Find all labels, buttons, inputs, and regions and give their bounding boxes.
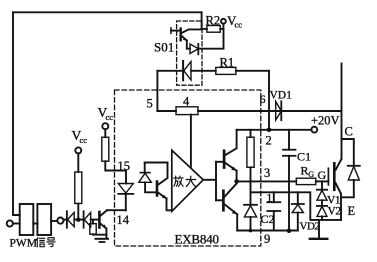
capacitor C1 plate bottom [283,155,296,157]
wire Vcc circle lead [77,153,79,172]
diode VD2 triangle [292,205,303,213]
resistor pin4 [176,107,198,115]
diode VD2 top lead [297,192,299,204]
diode opto-out triangle [190,44,198,54]
svg-text:VD2: VD2 [300,221,320,233]
resistor RG [296,178,316,184]
PWM block 1 [20,204,34,235]
wire RG to gate [316,180,329,182]
capacitor C2 top lead [273,192,275,202]
wire diode freewheel bottom [341,180,354,197]
terminal +20V circle [311,127,317,133]
wire amp output [203,179,216,181]
wire pin6 line left [157,110,176,112]
ground right bar [310,238,328,240]
transistor T2 base bar [156,182,159,196]
output terminal circle [57,218,63,224]
svg-text:C2: C2 [261,212,275,226]
wire Vcc R2 lead [222,24,224,29]
wire feedback top [13,11,202,13]
diode internal free-wheel triangle [244,206,256,217]
wire pin6 line right [198,110,342,112]
wire Vcc resistor lead lower [77,204,79,220]
transistor Q1 emitter [101,224,107,229]
phototransistor base tick [170,28,172,33]
wire pin2 +20V line [237,129,312,131]
transistor Q1 collector [101,210,107,215]
junction dot C1 rail [287,228,292,233]
phototransistor emitter arrowhead [183,37,187,40]
svg-text:6: 6 [260,94,266,106]
wire R1 vertical down [268,71,270,130]
transistor T4 emitter [225,205,238,215]
wire LED to R1 [191,70,216,72]
phototransistor collector [182,29,202,32]
capacitor C2 plate top [267,201,280,203]
label 大 glyph [186,176,196,186]
wire IGBT collector [341,64,343,159]
capacitor C1 plate top [283,149,296,151]
wire Vcc upper lead [104,129,106,137]
wire pin1 line [251,192,342,220]
wire Db to Q1 base [91,219,99,221]
zener V2 cathode bar [317,205,327,207]
transistor IGBT collector diag [336,159,342,170]
svg-text:V2: V2 [328,206,342,218]
svg-text:PWM: PWM [10,238,37,250]
diode opto-out cathode bar [197,44,199,54]
svg-text:VD1: VD1 [270,90,293,102]
wire opto-out to R2 right [198,29,223,49]
wire block2 to output terminal [51,220,57,222]
svg-text:C1: C1 [297,150,311,164]
resistor pin15 [102,137,109,161]
transistor T4 emitter arrowhead [232,210,237,214]
wire pull-up top lead [250,130,252,137]
svg-text:cc: cc [106,112,114,122]
wire pin14 external [107,209,126,211]
transistor T3 emitter [225,163,236,171]
resistor R2 [207,26,220,33]
phototransistor emitter [182,36,187,40]
terminal Vcc R2 [221,19,226,24]
transistor T3 base bar [223,151,226,168]
wire input diode lower lead [125,194,127,210]
ground Q1 bar2 [100,241,105,243]
optocoupler S01 dashed box [177,21,202,85]
wire pin3 output line [237,180,297,182]
capacitor C2 bottom lead [273,211,275,231]
wire to diode Da [64,219,67,221]
svg-text:C: C [345,125,353,139]
wire pin5 to LED [157,70,183,72]
capacitor C1 bottom lead [288,156,290,231]
resistor pull-up internal [247,137,254,167]
phototransistor base bar [179,29,181,41]
resistor Vcc-left [75,172,82,204]
wire photo loop top [145,162,168,164]
transistor IGBT emitter diag [336,183,341,194]
resistor R1 [216,67,236,74]
svg-text:G: G [308,170,314,179]
wire base resistor top lead [92,220,94,224]
wire R1 right [236,70,269,72]
wire feedback left [13,12,20,215]
terminal Vcc upper [102,123,108,129]
label 放 glyph [174,176,184,186]
transistor T2 collector [158,163,167,185]
wire zener mid lead [321,200,323,206]
transistor Q1 base bar [98,212,101,228]
zener V1 cathode bar [317,189,327,191]
diode VD1 cathode bar [280,101,282,120]
diode photo triangle up [139,173,152,182]
phototransistor base stub [171,30,180,32]
wire common base vertical [215,162,217,201]
diode S01 LED cathode bar [182,61,184,80]
PWM input terminal [7,220,13,226]
svg-text:5: 5 [147,97,153,111]
svg-text:4: 4 [183,95,190,109]
PWM block 2 [37,204,51,235]
transistor T4 base bar [222,191,225,210]
wire T4 emitter down [236,214,238,230]
diode freewheel cathode bar [348,165,360,167]
wire base resistor bottom to emitter [93,233,106,236]
diode VD2 cathode bar [292,203,304,205]
svg-text:R1: R1 [220,55,235,69]
wire pin5 vertical [156,71,158,111]
EXB840 dashed box [115,90,261,246]
svg-text:E: E [348,204,356,218]
svg-text:9: 9 [264,232,270,246]
wire T2 emitter down [167,199,171,211]
wire PWM input stub [13,223,20,225]
junction dot internal diode rail [249,229,253,233]
svg-text:EXB840: EXB840 [175,232,219,247]
wire block1-block2 [33,223,37,225]
svg-text:3: 3 [264,166,270,180]
svg-text:cc: cc [80,135,88,145]
wire emitter to LED [187,41,190,49]
svg-text:cc: cc [235,20,243,30]
diode VD2 bottom lead [297,213,299,231]
diode Db cathode bar [83,211,85,227]
diode VD1 triangle [276,102,282,121]
wire T3 base stub [216,161,223,163]
wire zener chain top lead [321,181,323,189]
capacitor C1 top lead [288,130,290,150]
wire IGBT emitter down [340,194,342,220]
wire diode branch top [342,139,354,166]
label 信 glyph [36,238,44,247]
transistor T2 emitter arrowhead [162,195,167,199]
wire R2 left [202,28,207,30]
diode S01 LED triangle [184,62,191,81]
wire R2 right [220,28,223,30]
ground Q1 bar [96,238,109,240]
label 号 glyph [47,238,55,247]
wire photo loop left down [144,163,146,173]
wire T3 emitter down [236,171,238,182]
transistor IGBT body bar [333,163,336,190]
resistor base Q1 [90,224,96,235]
transistor T3 emitter arrowhead [231,167,236,171]
wire pin4 resistor tap to amp [190,115,192,167]
diode Da cathode bar [66,211,68,227]
svg-text:S01: S01 [154,40,174,55]
transistor T3 collector [225,130,236,155]
junction dot output node [234,179,239,184]
diode input 15-14 cathode bar [118,193,133,195]
diode input 15-14 triangle [118,184,133,194]
wire zener bottom lead [321,216,323,220]
wire Da to junction [74,219,83,221]
wire input diode upper lead [125,171,127,184]
transistor IGBT gate bar [327,168,329,185]
wire internal diode lower lead [250,217,252,231]
zener V1 triangle [317,190,327,200]
diode internal free-wheel bar [244,204,257,206]
ground right stem [318,220,320,238]
wire Q1 emitter down [105,229,107,238]
diode Db triangle [84,212,91,226]
junction dot base line [76,218,80,222]
junction dot R1 vertical on pin2 line [267,128,272,133]
svg-text:2: 2 [266,134,272,148]
diode photo cathode bar [140,172,150,174]
wire rail pin9 [237,230,298,232]
svg-text:14: 14 [117,213,130,227]
zener V2 triangle [317,206,327,216]
svg-text:15: 15 [118,159,131,173]
diode Da triangle [68,212,75,226]
wire pin15 [105,161,126,170]
wire pull-up bottom lead [250,167,252,204]
svg-text:+20V: +20V [311,114,340,128]
op-amp triangle 放大 [172,150,203,211]
diode freewheel triangle [348,166,359,180]
wire T4 base stub [216,199,222,201]
svg-text:R2: R2 [206,14,221,28]
transistor Q1 emitter arrowhead [103,224,107,228]
transistor T4 collector [225,184,237,197]
transistor T2 emitter [158,193,166,199]
terminal Vcc left [75,147,81,153]
wire top drop to R2 node [201,12,203,29]
wire photo diode to T2 base [145,182,156,192]
capacitor C2 plate bottom [267,210,280,212]
svg-text:G: G [318,168,327,182]
